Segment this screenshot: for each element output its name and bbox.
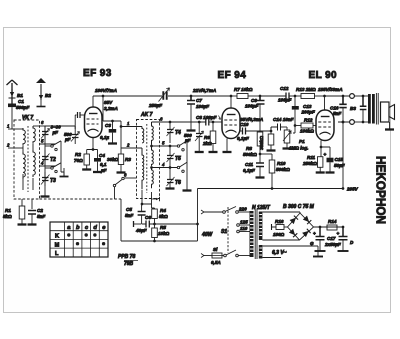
capacitor C9 — [257, 95, 265, 112]
wire rail to C12 — [260, 95, 286, 97]
svg-text:0,5A: 0,5A — [211, 260, 221, 265]
svg-text:250µF: 250µF — [148, 103, 162, 108]
svg-text:100pF: 100pF — [245, 104, 258, 109]
trimmer T3 — [41, 172, 50, 186]
coil L7 secondary AK7 — [152, 122, 154, 145]
label R12 100kOhm — [300, 118, 314, 134]
wire coil interconnects — [23, 144, 33, 190]
ground under R1 — [18, 223, 27, 225]
capacitor C6 — [142, 221, 155, 228]
label R6 2kOhm — [202, 135, 212, 146]
wire EF94 anode to rail — [230, 95, 233, 108]
svg-text:30kΩ: 30kΩ — [107, 157, 119, 162]
coil L6 primary lower AK7 — [142, 148, 144, 189]
ground under EF94 cathode — [223, 151, 232, 153]
wire bridge out to filter — [314, 226, 345, 229]
svg-text:B3: B3 — [350, 106, 356, 111]
svg-text:5nF: 5nF — [37, 214, 45, 219]
svg-text:0,1µF: 0,1µF — [237, 136, 249, 141]
resistor R1 — [19, 206, 25, 224]
chassis under C17a — [315, 250, 326, 252]
wire top rail left — [93, 95, 160, 97]
trimmer T6 — [167, 168, 175, 189]
label C6 40pF — [135, 215, 151, 233]
label 500 pF — [184, 133, 192, 143]
wire HT top to bridge — [262, 212, 300, 213]
trimmer 3-30pF — [41, 126, 50, 140]
svg-text:R3: R3 — [125, 157, 131, 162]
wire AK7 terminal 1 — [120, 121, 142, 128]
label VK7 — [22, 115, 33, 121]
trimmer T5 — [167, 145, 175, 169]
coil L5 primary AK7 — [142, 127, 144, 143]
svg-text:250kΩ: 250kΩ — [302, 161, 317, 166]
chassis under C17b — [338, 250, 349, 252]
tube EL90 — [316, 110, 334, 141]
wire terminal 5 — [40, 139, 57, 145]
svg-text:C14 10nF: C14 10nF — [273, 117, 294, 122]
capacitor C17a — [313, 228, 325, 251]
wire EF94 cathode — [226, 139, 228, 152]
svg-text:Si: Si — [213, 247, 218, 252]
switch K1 — [45, 141, 61, 151]
svg-text:6,3 V~: 6,3 V~ — [272, 250, 287, 256]
label EF93 — [83, 68, 112, 79]
label 35V 0.3mA — [240, 117, 263, 122]
svg-text:C11: C11 — [245, 162, 254, 167]
svg-text:C5: C5 — [126, 207, 132, 212]
wire EF93 cathode — [87, 138, 98, 151]
wire end tick left — [134, 221, 142, 227]
svg-text:100kΩ: 100kΩ — [300, 129, 314, 134]
svg-text:40µF: 40µF — [135, 228, 147, 233]
svg-text:C4: C4 — [99, 153, 105, 158]
label C15 50uF — [334, 157, 345, 168]
capacitor C1 — [8, 98, 16, 129]
output transformer T2 windings — [368, 93, 378, 125]
svg-text:b: b — [76, 225, 80, 231]
ground under T6 — [166, 187, 175, 189]
svg-text:R4: R4 — [160, 208, 166, 213]
label 185V 33mA — [318, 87, 343, 92]
label Si 0.5A — [211, 247, 221, 265]
table dots row K — [67, 233, 97, 236]
label C9 100pF — [245, 98, 258, 109]
coil L4 secondary lower — [33, 150, 35, 177]
resistor R10 — [269, 154, 275, 190]
connector B2 — [37, 95, 46, 107]
ground under R11 — [316, 171, 325, 173]
resistor R2 — [84, 150, 89, 170]
svg-text:AK 7: AK 7 — [140, 112, 153, 118]
svg-text:µF: µF — [64, 137, 71, 142]
capacitor C15 electrolytic — [324, 147, 334, 172]
svg-text:C1: C1 — [18, 99, 24, 104]
svg-text:100V/7mA: 100V/7mA — [95, 88, 117, 93]
resistor R7 — [231, 94, 260, 99]
label C5 5nF — [125, 207, 133, 218]
label AK7 — [140, 112, 153, 118]
svg-text:R8: R8 — [246, 146, 252, 151]
ground R1 C2 stubs — [22, 199, 32, 209]
label C2 5nF — [37, 208, 45, 219]
svg-text:G: G — [310, 241, 314, 246]
capacitor C11 — [256, 153, 264, 177]
svg-text:L: L — [55, 251, 59, 257]
switch K3 — [177, 141, 187, 151]
svg-text:3,2mA: 3,2mA — [104, 106, 118, 111]
svg-text:R11: R11 — [307, 155, 316, 160]
wire EF93 anode to rail — [92, 96, 94, 107]
label 220 tap — [238, 207, 247, 212]
svg-text:B 300 C 75 M: B 300 C 75 M — [283, 204, 315, 210]
ground switch bus — [60, 172, 69, 177]
svg-text:+: + — [337, 231, 340, 236]
AVC arrow tick AK7 — [152, 197, 160, 201]
label R7 10kOhm — [234, 87, 253, 92]
wire 500pF to bus — [45, 126, 75, 144]
transformer heater secondary — [259, 245, 263, 259]
svg-text:100Ω: 100Ω — [273, 232, 285, 237]
coil L3 secondary — [33, 126, 35, 144]
svg-text:220: 220 — [238, 207, 247, 212]
resistor R6 — [210, 121, 216, 152]
label B3 — [350, 106, 356, 111]
capacitor C12 — [286, 93, 289, 100]
trimmer 500pF input — [71, 129, 80, 143]
ground under C2 — [28, 223, 37, 225]
label C14 10nF — [273, 117, 294, 122]
wire EF93 screen feed — [102, 95, 121, 121]
wire ground frame RF — [121, 189, 199, 243]
label R11 250kOhm — [302, 155, 317, 166]
table band switch — [50, 222, 108, 257]
connector B1 — [9, 89, 16, 98]
label HEKOPHON vertical — [374, 156, 388, 224]
capacitor C8 — [206, 119, 222, 126]
svg-text:PPB 78: PPB 78 — [118, 254, 135, 260]
wire terminal 6 — [33, 120, 45, 126]
tap 110 — [237, 226, 250, 233]
variable capacitor 250uF — [159, 88, 172, 102]
svg-text:2x50µF: 2x50µF — [324, 242, 341, 247]
label C16 5nF — [330, 106, 341, 117]
tap 125 — [237, 220, 250, 227]
label C7 100uF — [196, 98, 209, 109]
coil L2 primary lower — [23, 152, 25, 179]
resistor R13 — [301, 94, 325, 99]
label R3 — [107, 157, 131, 162]
label S1 — [221, 229, 227, 235]
svg-text:79B: 79B — [124, 261, 134, 267]
ground under 500pF — [195, 151, 204, 153]
wire 295V feed line — [198, 187, 345, 190]
wire mains lead bottom — [201, 254, 212, 258]
svg-text:µF: µF — [52, 130, 59, 135]
wire terminal 1 — [7, 124, 23, 130]
capacitor C3 — [109, 120, 117, 143]
label 85V 3.2mA — [104, 100, 118, 111]
resistor R11 — [318, 147, 323, 172]
svg-text:+: + — [313, 231, 316, 236]
table dots row M — [76, 242, 106, 245]
label C11 0.1uF — [243, 162, 255, 173]
wire terminal 2 — [6, 143, 23, 149]
svg-text:40W: 40W — [201, 232, 214, 238]
svg-text:T5: T5 — [175, 156, 181, 162]
label B300C75M — [283, 204, 315, 210]
ground under switch bus — [183, 189, 192, 191]
antenna 2 — [36, 78, 46, 100]
wire grid column EF93 — [44, 126, 46, 196]
speaker LS — [381, 102, 395, 130]
wire AK7 terminal 4 — [150, 162, 177, 169]
label T2 — [50, 157, 56, 163]
ground under C15 — [326, 171, 335, 173]
grid cap EF93 — [78, 112, 85, 118]
label 100V 7mA — [95, 88, 117, 93]
svg-text:T3: T3 — [50, 178, 56, 184]
svg-text:µF: µF — [184, 138, 191, 143]
capacitor C7 — [187, 96, 195, 130]
label R2 70ohm — [74, 152, 83, 163]
label C8 100pF — [196, 115, 221, 120]
svg-text:P1: P1 — [299, 139, 305, 144]
ground under R2 — [82, 168, 91, 170]
svg-text:5nF: 5nF — [333, 111, 341, 116]
svg-text:R2: R2 — [75, 152, 81, 157]
resistor R14 — [327, 225, 337, 230]
core VK7 — [27, 126, 29, 192]
svg-text:S1: S1 — [221, 229, 227, 235]
svg-text:R12: R12 — [304, 118, 313, 123]
capacitor C14 coupling — [271, 124, 287, 132]
svg-text:T2: T2 — [50, 157, 56, 163]
svg-text:22V/0,7mA: 22V/0,7mA — [192, 88, 216, 93]
ground under C7 — [187, 129, 196, 131]
svg-text:2: 2 — [126, 143, 130, 148]
resistor R8 — [257, 112, 263, 154]
table row labels — [55, 234, 60, 257]
svg-text:R13 2MΩ: R13 2MΩ — [296, 87, 316, 92]
svg-text:M: M — [55, 242, 60, 248]
wire terminal 4 — [40, 161, 57, 167]
label EF94 — [218, 70, 247, 81]
ground under C11 — [256, 176, 265, 178]
resistor R16 — [272, 224, 288, 230]
svg-text:R16: R16 — [275, 219, 284, 224]
ground bottom of grid column — [41, 195, 50, 197]
svg-text:500kΩ: 500kΩ — [243, 152, 257, 157]
svg-text:HEKOPHON: HEKOPHON — [374, 156, 388, 224]
svg-text:C10: C10 — [240, 122, 249, 127]
capacitor C16 — [339, 95, 346, 124]
label R16 100ohm — [273, 219, 285, 237]
svg-text:85V: 85V — [104, 100, 113, 105]
label R8 500kOhm — [243, 146, 257, 157]
capacitor C2 — [28, 211, 36, 225]
svg-text:2kΩ: 2kΩ — [202, 141, 212, 146]
wire AK7 terminal 6 — [152, 117, 207, 123]
transformer primary winding — [250, 211, 254, 257]
label R13 2MOhm — [296, 87, 316, 92]
svg-text:T6: T6 — [175, 180, 181, 186]
wire AK7 terminal 2 — [121, 143, 142, 149]
svg-text:R6: R6 — [204, 135, 210, 140]
switch gang dashed S1 — [227, 207, 229, 253]
label R14 — [328, 219, 337, 224]
switch K2 — [45, 163, 61, 173]
label C13 200pF — [301, 104, 315, 115]
svg-text:300kΩ: 300kΩ — [259, 136, 264, 150]
capacitor C13 — [292, 96, 299, 133]
label R9 300kOhm — [259, 136, 264, 150]
trimmer T4 — [167, 121, 175, 143]
chassis ground heater — [313, 246, 323, 257]
wire AK7 terminal 5 — [150, 141, 177, 148]
svg-text:0,1µF: 0,1µF — [243, 168, 255, 173]
ground under C3 — [108, 142, 117, 144]
trimmer 500pF EF94 — [195, 121, 204, 152]
label 3-30 uF — [51, 125, 62, 136]
coil box AK7 — [137, 120, 160, 199]
label C12 100pF — [278, 86, 291, 103]
label EL90 — [309, 70, 338, 81]
wire primary top to terminal — [325, 95, 350, 97]
label C4 — [99, 153, 107, 173]
switch S1a — [223, 207, 250, 214]
svg-text:2: 2 — [6, 143, 10, 148]
svg-text:125: 125 — [240, 220, 248, 225]
wire mains lead top — [201, 210, 223, 214]
label R4 5kOhm — [159, 208, 168, 219]
coil L8 secondary lower AK7 — [152, 146, 154, 188]
svg-text:T4: T4 — [175, 130, 181, 136]
svg-text:110: 110 — [240, 226, 248, 231]
terminal plug bottom — [350, 120, 368, 125]
label 22V 0.7mA — [192, 88, 216, 93]
diode D1 — [290, 216, 298, 224]
svg-text:C15: C15 — [335, 157, 344, 162]
svg-text:d: d — [93, 225, 97, 231]
wire AK7 terminal 6l with switch — [113, 173, 136, 200]
capacitor C10 — [243, 128, 272, 135]
label C17 2x50uF — [324, 236, 341, 247]
transformer core — [255, 209, 257, 259]
antenna 1 — [7, 80, 18, 104]
terminal plug top — [350, 94, 368, 99]
label 6.3V — [272, 250, 287, 256]
switch S1b — [224, 250, 250, 257]
wire switch bus — [61, 141, 64, 176]
wire bus y224 — [153, 223, 197, 226]
label B2 — [45, 93, 51, 98]
wire AVC dashed link — [40, 198, 122, 200]
label R10 500kOhm — [276, 161, 290, 172]
trimmer T2 — [41, 150, 50, 166]
wire grid link to EF93 — [75, 115, 76, 129]
wire primary bottom rail — [338, 121, 350, 189]
svg-text:C13: C13 — [303, 104, 312, 109]
wire heater 6.3V — [262, 246, 318, 258]
label C10 0.1uF — [237, 122, 249, 141]
diode D4 — [302, 229, 310, 237]
svg-text:C6: C6 — [145, 215, 151, 220]
label 250uF — [148, 103, 162, 108]
label 40W — [201, 232, 214, 238]
svg-text:EL 90: EL 90 — [309, 70, 338, 81]
svg-text:C7: C7 — [196, 98, 202, 103]
svg-text:C17: C17 — [327, 236, 336, 241]
wire top rail mid — [171, 95, 231, 98]
svg-text:295V: 295V — [346, 187, 359, 192]
svg-text:B1: B1 — [17, 93, 23, 98]
svg-text:185V/33mA: 185V/33mA — [318, 87, 343, 92]
potentiometer P1 — [283, 127, 291, 148]
label T4 — [175, 130, 181, 136]
svg-text:EF 94: EF 94 — [218, 70, 247, 81]
svg-text:C3: C3 — [105, 123, 111, 128]
svg-text:C2: C2 — [37, 208, 43, 213]
svg-text:1MΩ log.: 1MΩ log. — [289, 146, 308, 151]
svg-text:R14: R14 — [328, 219, 337, 224]
label R5 10kOhm — [158, 225, 170, 236]
label P1 1MOhm log — [289, 139, 308, 151]
wire EL90 cathode — [320, 141, 330, 149]
table grid lines — [50, 222, 108, 257]
svg-text:5kΩ: 5kΩ — [3, 214, 12, 219]
ground under R6 — [209, 151, 218, 153]
fuse Si 0.5A — [212, 253, 224, 258]
capacitor C5 — [138, 212, 146, 223]
coil L1 primary — [23, 128, 25, 146]
svg-text:500kΩ: 500kΩ — [276, 167, 290, 172]
wire switch bus AK7 — [186, 141, 188, 190]
svg-text:70Ω: 70Ω — [74, 158, 83, 163]
wire EL90 anode — [323, 95, 326, 110]
table header labels — [67, 225, 106, 231]
svg-text:100µF: 100µF — [196, 104, 209, 109]
label N 125/T — [252, 205, 271, 211]
switch K4 — [177, 162, 187, 172]
label R1 5kOhm — [3, 208, 12, 219]
svg-text:R10: R10 — [277, 161, 286, 166]
svg-text:EF 93: EF 93 — [83, 68, 112, 79]
svg-text:C9: C9 — [251, 98, 257, 103]
core AK7 — [146, 124, 148, 193]
tube EF94 — [222, 108, 240, 139]
coil box VK7 — [14, 120, 40, 199]
ground under C4 — [93, 171, 102, 173]
capacitor C4 — [94, 150, 101, 172]
resistor R9 — [268, 130, 274, 150]
svg-text:200pF: 200pF — [301, 110, 315, 115]
svg-text:R1: R1 — [5, 208, 11, 213]
ground under R3 — [117, 171, 126, 173]
label C3 0.1uF — [100, 123, 111, 140]
svg-text:500pF: 500pF — [16, 105, 29, 110]
svg-text:10kΩ: 10kΩ — [158, 231, 170, 236]
capacitor C17b — [337, 228, 348, 251]
svg-text:B2: B2 — [45, 93, 51, 98]
label D — [350, 240, 354, 245]
svg-text:R5: R5 — [160, 225, 166, 230]
wire R8 to R10 — [260, 153, 272, 155]
ground under P1 — [283, 147, 292, 149]
resistor R3 — [118, 121, 123, 172]
svg-text:5nF: 5nF — [125, 213, 133, 218]
resistor R12 — [295, 123, 316, 128]
